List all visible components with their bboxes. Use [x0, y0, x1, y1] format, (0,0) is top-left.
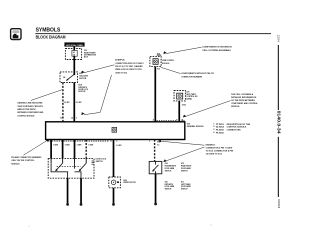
switch arm left [55, 163, 62, 171]
svg-text:WIPER MOTOR: WIPER MOTOR [123, 182, 136, 184]
legend row 3 [213, 129, 224, 132]
switch stubs entering [51, 159, 86, 164]
switch internal wiring right [75, 163, 82, 178]
svg-text:SWITCH: SWITCH [165, 189, 172, 191]
wire GM pin b below [62, 140, 64, 159]
svg-text:ONLY ON THE CONTROL: ONLY ON THE CONTROL [11, 160, 35, 162]
jamb switch labels S17 [181, 181, 191, 190]
wire GM pin a below [50, 140, 52, 159]
svg-text:9: 9 [213, 126, 214, 128]
wire dashed GM to jamb switch [154, 140, 156, 162]
svg-text:MODULE: MODULE [162, 63, 170, 65]
pin strip top [157, 119, 185, 122]
note PIN AND CONNECTOR NUMBERS [11, 156, 42, 165]
right margin line lower [278, 137, 279, 197]
switch coupling (dashed) [57, 165, 81, 167]
svg-text:0.5BR: 0.5BR [77, 145, 83, 147]
label door lock switch [96, 158, 107, 162]
wire stub in M17 [73, 72, 75, 75]
svg-text:HOT AT ALL TIMES: HOT AT ALL TIMES [66, 44, 83, 47]
motor M17 box (dashed) [60, 72, 78, 83]
door lock switch assembly box (dashed) [48, 159, 94, 179]
svg-text:DESCRIPTION OF THE: DESCRIPTION OF THE [227, 124, 251, 126]
svg-text:X255: X255 [219, 130, 225, 132]
terminal dot motor [112, 203, 115, 206]
label M17 TAILGATE LOCK MOTOR [79, 73, 88, 80]
fuse F30 [72, 50, 77, 56]
legend row 4 [213, 132, 224, 135]
note EXAMPLE connector 2 [206, 143, 234, 155]
box edge ticks [92, 161, 94, 165]
wire jamb switch to terminal [155, 174, 157, 203]
note THE CELL CONTAINS [231, 93, 258, 108]
motor symbol [111, 180, 119, 185]
leader from K1 to note [163, 47, 201, 54]
wire K1 to GM pin 4 [154, 67, 156, 122]
svg-text:0140.0-34: 0140.0-34 [276, 111, 281, 135]
svg-text:EXAMPLE:: EXAMPLE: [115, 59, 125, 62]
svg-text:SWITCH: SWITCH [181, 189, 188, 191]
leader from note to GM corner [23, 139, 49, 155]
wire GM to wiper motor [113, 140, 115, 177]
terminal dot right [80, 203, 83, 206]
leader from note to dashed wire [31, 90, 62, 101]
wire fuse to motor M17 [73, 56, 75, 72]
svg-text:CONNECTOR NUMBERS: CONNECTOR NUMBERS [181, 76, 203, 78]
right margin line upper [278, 45, 279, 110]
wire GM pin c below [74, 140, 76, 159]
label above K1 [157, 52, 162, 57]
svg-text:6: 6 [213, 132, 214, 134]
svg-text:OF THE PATH BETWEEN: OF THE PATH BETWEEN [231, 99, 255, 102]
svg-text:0.5BR: 0.5BR [65, 145, 71, 147]
leader to M17 connector [81, 65, 114, 74]
svg-text:ARE IN THE PATH: ARE IN THE PATH [17, 108, 36, 111]
svg-text:GM/III: GM/III [157, 55, 162, 57]
svg-text:THE CELL CONTAINS A: THE CELL CONTAINS A [231, 93, 254, 96]
svg-text:SWITCH: SWITCH [181, 170, 188, 172]
svg-text:1: 1 [213, 123, 214, 125]
label M18 DRIVER'S DOOR LOCK MOTOR [78, 85, 88, 94]
svg-text:CONNECTORS X253 PIN 17 AND X: CONNECTORS X253 PIN 17 AND X [115, 62, 144, 65]
power distribution box X160 (dashed) [65, 49, 81, 60]
svg-text:0.5BR: 0.5BR [53, 145, 59, 147]
svg-text:0.5 BR: 0.5 BR [76, 102, 82, 104]
svg-text:COMPONENT IS SHOWN IN: COMPONENT IS SHOWN IN [202, 47, 232, 49]
svg-text:CONNECTOR 2 PIN 1 GOES: CONNECTOR 2 PIN 1 GOES [206, 147, 233, 149]
svg-text:0.5 BR: 0.5 BR [116, 145, 122, 147]
legend description [227, 124, 251, 132]
leader to jamb switch corner [163, 147, 204, 162]
svg-text:DETAILED INFORMATION: DETAILED INFORMATION [231, 96, 257, 99]
label GM GENERAL MODULE [187, 124, 205, 129]
svg-text:GOES TO X12: GOES TO X12 [115, 72, 127, 74]
note COMPONENT IS SHOWN IN CELL [202, 47, 232, 52]
switch arm right [79, 163, 86, 171]
svg-text:0.5: 0.5 [157, 145, 159, 147]
label KOMBI CONTROL MODULE [162, 60, 175, 65]
svg-text:BLOCK DIAGRAM: BLOCK DIAGRAM [36, 35, 66, 40]
svg-text:COMPONENT AND CONTROL: COMPONENT AND CONTROL [231, 102, 258, 105]
jamb switch labels S15 [181, 163, 192, 172]
wire A/S to GM pin B [178, 101, 180, 122]
leader to pin 1 [81, 75, 111, 115]
svg-text:CELL OUTSIDE AN AIRBAG: CELL OUTSIDE AN AIRBAG [202, 49, 231, 52]
svg-text:0.5BR: 0.5BR [88, 145, 94, 147]
note COMPONENTS WITHOUT PIN [181, 73, 214, 78]
jamb switch labels S16 [165, 181, 175, 190]
speck 2 [29, 225, 30, 228]
component symbol in GM [112, 127, 117, 132]
svg-text:TO X14. CONNECTOR 4 PIN: TO X14. CONNECTOR 4 PIN [206, 149, 234, 152]
svg-text:WIRE & PIN 12 GOES TO X270: WIRE & PIN 12 GOES TO X270 [115, 69, 142, 71]
wire switch to terminal right [80, 178, 82, 203]
svg-text:DASHED LINE INDICATES: DASHED LINE INDICATES [17, 102, 43, 105]
svg-text:SWITCH: SWITCH [165, 170, 172, 172]
svg-text:PIN 11 GO TO X257. DASHED: PIN 11 GO TO X257. DASHED [115, 65, 143, 68]
wire GM pin d below (dashed) [85, 140, 87, 159]
pin strip bottom [47, 140, 108, 143]
legend row 1 [213, 123, 224, 126]
jamb switch symbol [152, 161, 158, 173]
speck 1 [211, 224, 212, 227]
module A/S anti-theft (dashed) [174, 91, 185, 101]
svg-text:X253: X253 [182, 105, 186, 107]
legend row 2 [213, 126, 224, 129]
svg-text:X253: X253 [219, 124, 225, 126]
svg-text:GENERAL MODULE: GENERAL MODULE [187, 125, 205, 128]
component K1 (dashed) [150, 56, 161, 66]
svg-text:THAT FURTHER CIRCUITS: THAT FURTHER CIRCUITS [17, 105, 43, 108]
svg-text:COMPONENTS WITHOUT PIN OR: COMPONENTS WITHOUT PIN OR [181, 73, 214, 75]
svg-text:1994: 1994 [277, 199, 281, 209]
jamb switch labels S14 [165, 162, 177, 172]
svg-text:MOTOR: MOTOR [79, 78, 87, 80]
svg-text:2: 2 [213, 129, 214, 131]
terminal dot left [66, 203, 69, 206]
header rule 1 [35, 32, 271, 35]
svg-text:CONTROL MODULE: CONTROL MODULE [227, 127, 247, 129]
leader to pin 1 label [158, 140, 205, 145]
svg-text:1294: 1294 [277, 35, 281, 43]
label HOT AT ALL TIMES [64, 42, 84, 46]
svg-text:14 GOES TO X14: 14 GOES TO X14 [206, 152, 223, 155]
jamb switch box [149, 161, 162, 173]
svg-text:PIN AND CONNECTOR NUMBERS: PIN AND CONNECTOR NUMBERS [11, 156, 42, 159]
svg-text:SYMBOLS: SYMBOLS [36, 28, 61, 34]
label ANTI-THEFT CONTROL MODULE [186, 90, 198, 100]
svg-text:EXAMPLE:: EXAMPLE: [206, 143, 216, 146]
svg-text:CONTROL MODULE: CONTROL MODULE [17, 115, 35, 117]
svg-text:X16: X16 [157, 69, 160, 71]
note EXAMPLE connectors [115, 59, 144, 75]
svg-text:0.5 BR: 0.5 BR [64, 102, 70, 104]
svg-text:SWITCH: SWITCH [96, 161, 104, 163]
wire switch to terminal left [67, 178, 69, 203]
label X160 REAR POWER DISTRIBUTION BOX [84, 50, 97, 58]
switch internal wiring left [51, 163, 68, 178]
wire dashed M17 to GM pin 13 [62, 83, 64, 122]
terminal dot jamb [154, 203, 157, 206]
wire battery feed into fuse [73, 47, 75, 51]
header icon [11, 29, 21, 40]
switch arm in M17 [63, 75, 74, 81]
wire M17 to GM pin 12 [73, 83, 75, 122]
svg-text:MOTOR: MOTOR [78, 91, 86, 93]
wire motor to terminal [113, 188, 115, 204]
svg-text:X254: X254 [219, 126, 225, 129]
svg-text:MODULE: MODULE [231, 106, 240, 108]
control module GM box [46, 122, 185, 140]
note DASHED LINE INDICATES [17, 102, 44, 118]
leader from K1 to note COMPONENTS WITHOUT [161, 67, 181, 73]
svg-text:BETWEEN COMPONENT AND: BETWEEN COMPONENT AND [17, 111, 44, 114]
svg-text:(DWA): (DWA) [186, 98, 192, 101]
leader from note to wire B [183, 101, 231, 118]
svg-text:CONNECTORS: CONNECTORS [227, 130, 242, 132]
label wiper motor [123, 180, 136, 184]
svg-text:MODULE: MODULE [11, 163, 20, 165]
wiper motor box (dashed) [109, 177, 121, 188]
svg-text:X256: X256 [219, 133, 225, 135]
